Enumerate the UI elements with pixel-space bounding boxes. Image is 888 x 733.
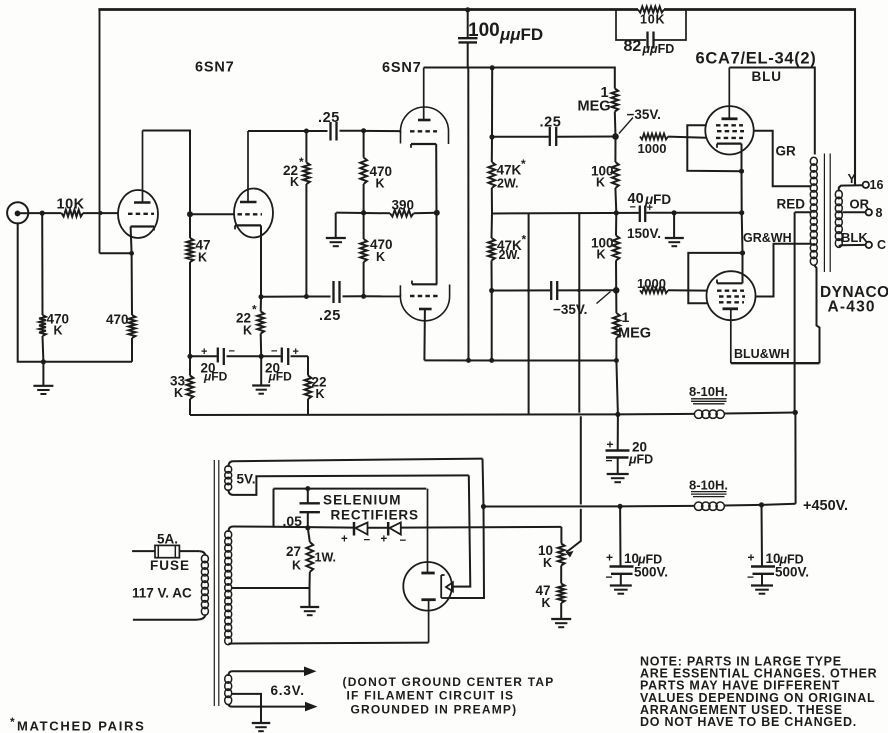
svg-text:1W.: 1W. bbox=[315, 551, 337, 565]
wire jack sleeve down and ground bus bbox=[18, 223, 132, 364]
label 100uuFD bbox=[468, 20, 543, 44]
svg-text:+: + bbox=[201, 346, 207, 358]
ground EL34 cathode bbox=[665, 213, 684, 246]
wire V4 plate to OT BLU&WH bbox=[731, 272, 820, 364]
label 47K* 2W upper bbox=[497, 157, 527, 191]
wire RED center tap bbox=[795, 211, 812, 213]
tube V1b cathode bbox=[235, 225, 261, 296]
svg-text:2W.: 2W. bbox=[499, 248, 521, 262]
wire bias bus bottom bbox=[190, 412, 621, 417]
wire driver cathodes to 390 bbox=[414, 212, 437, 215]
label Y bbox=[848, 172, 857, 186]
svg-text:+: + bbox=[606, 551, 613, 565]
resistor 10K input bbox=[62, 210, 84, 217]
resistor 47K bias bbox=[558, 566, 565, 619]
wire 10K to V1a grid bbox=[83, 212, 118, 214]
label 470K V2a grid bbox=[370, 164, 393, 191]
wire selenium mid bbox=[368, 527, 389, 529]
capacitor 10uFD 500V second bbox=[751, 505, 775, 585]
resistor 390 common cathode bbox=[390, 210, 414, 217]
label C bbox=[877, 238, 886, 252]
svg-text:K: K bbox=[543, 556, 552, 570]
svg-text:BLK: BLK bbox=[841, 230, 868, 245]
tube V3 EL34 upper envelope bbox=[705, 106, 753, 154]
svg-text:FUSE: FUSE bbox=[150, 558, 190, 573]
transformer T1 5V winding bbox=[225, 461, 233, 495]
resistor 10K bias adjust bbox=[558, 527, 565, 566]
label FUSE bbox=[150, 558, 190, 573]
tube V2b plate bbox=[419, 309, 432, 360]
svg-text:*: * bbox=[522, 233, 527, 247]
svg-text:+: + bbox=[748, 551, 755, 565]
capacitor .25 upper EL34 coupling bbox=[492, 127, 619, 146]
label +/- 20uFD left bbox=[201, 346, 235, 384]
wire bias mid line bbox=[492, 212, 639, 215]
capacitor 100uuFD compensation bbox=[458, 7, 478, 360]
svg-text:μFD: μFD bbox=[268, 370, 293, 384]
tube V4 EL34 lower envelope bbox=[707, 271, 756, 320]
wire selenium row right to 10K bbox=[401, 526, 562, 529]
wire 390 to ground corner bbox=[336, 210, 390, 215]
svg-text:1: 1 bbox=[622, 309, 630, 325]
input jack J1 bbox=[7, 202, 28, 223]
label 10K feedback bbox=[640, 13, 665, 27]
wire V3 suppressor-cathode loop bbox=[687, 125, 744, 212]
tube V1b plate bbox=[240, 131, 257, 202]
svg-text:(DONOT GROUND CENTER TAP: (DONOT GROUND CENTER TAP bbox=[343, 675, 555, 689]
note text MATCHED PAIRS bbox=[10, 715, 146, 733]
label 6CA7/EL-34(2) bbox=[696, 50, 817, 68]
wire B+ drop from center tap bbox=[793, 212, 798, 504]
svg-text:SELENIUM: SELENIUM bbox=[323, 493, 402, 508]
label 22K* matched bbox=[283, 155, 304, 189]
resistor 470K V2a grid bbox=[360, 131, 367, 216]
label BLU&WH bbox=[734, 347, 790, 361]
label 10uFD 500V second bbox=[747, 551, 809, 585]
resistor 22K* V1b cathode bbox=[257, 297, 264, 359]
resistor 1000 lower grid stopper bbox=[640, 287, 707, 293]
label -/+ 20uFD right bbox=[265, 346, 299, 384]
capacitor 20uFD left electrolytic bbox=[190, 348, 261, 366]
tube V5 filament bbox=[441, 575, 470, 598]
capacitor 20uFD PS filter bbox=[606, 361, 630, 474]
ground 20uFD PS bbox=[607, 474, 629, 482]
capacitor 10uFD 500V first bbox=[610, 506, 634, 584]
ground 20uFD node bbox=[252, 356, 270, 393]
svg-text:6SN7: 6SN7 bbox=[382, 60, 421, 76]
label OR bbox=[850, 197, 870, 212]
svg-text:−: − bbox=[630, 202, 636, 214]
svg-text:RED: RED bbox=[777, 197, 806, 212]
tube V2a grid (dashed) bbox=[410, 130, 437, 132]
wire to V2a grid bbox=[364, 130, 401, 132]
fuse 5A bbox=[132, 545, 199, 557]
svg-text:K: K bbox=[597, 248, 606, 262]
label 47K bbox=[196, 238, 211, 265]
wire jack to 10K bbox=[28, 211, 61, 216]
label 6.3V bbox=[271, 683, 305, 698]
wire secondary common bbox=[839, 245, 866, 246]
label .25 lower-left bbox=[319, 308, 341, 324]
wire 5V bottom to rectifier filament bbox=[233, 475, 470, 586]
resistor 27K 1W bbox=[306, 528, 313, 588]
wire V4 suppressor-cathode loop bbox=[688, 213, 745, 304]
wire V1b cathode node bbox=[259, 294, 307, 299]
svg-text:100: 100 bbox=[468, 20, 500, 41]
label 1000 upper bbox=[638, 141, 667, 156]
wire V2a plate rail bbox=[424, 65, 613, 70]
diode selenium 1 bbox=[341, 522, 371, 547]
label DYNACO A-430 bbox=[820, 284, 888, 316]
svg-text:+: + bbox=[341, 534, 348, 546]
resistor 47K* 2W upper plate load bbox=[488, 68, 495, 214]
resistor 22K* V1b plate load bbox=[303, 131, 310, 299]
wire HV bottom to rectifier cathode bbox=[233, 642, 429, 645]
svg-text:K: K bbox=[376, 177, 385, 191]
tube V5 plate lower bbox=[421, 600, 435, 643]
transformer T2 secondary winding bbox=[835, 190, 842, 247]
wire 6.3V top filament arrow bbox=[232, 667, 317, 677]
svg-text:27: 27 bbox=[286, 544, 301, 559]
capacitor .25 lower EL34 coupling bbox=[492, 281, 617, 300]
wire 6.3V bottom filament arrow bbox=[232, 702, 318, 712]
resistor 1MEG lower bbox=[613, 290, 620, 360]
svg-text:6SN7: 6SN7 bbox=[195, 60, 234, 76]
svg-text:GR: GR bbox=[776, 144, 797, 159]
capacitor .25 upper-left coupling bbox=[306, 122, 366, 141]
junction V2 cathodes node bbox=[434, 210, 440, 216]
wire V4 screen tap GR&WH bbox=[756, 244, 812, 297]
resistor 47K V1b grid return bbox=[187, 214, 194, 359]
label 1 MEG lower bbox=[618, 309, 651, 342]
choke 8-10H second bbox=[620, 478, 796, 511]
transformer T2 primary winding bbox=[810, 157, 817, 271]
svg-text:GROUNDED IN PREAMP): GROUNDED IN PREAMP) bbox=[351, 703, 518, 717]
tube V1a grid (dashed) bbox=[128, 213, 154, 215]
svg-text:K: K bbox=[292, 559, 301, 573]
label 10uFD 500V first bbox=[606, 551, 669, 585]
label 6SN7 second tube bbox=[382, 60, 421, 76]
tube V1a 6SN7 first section envelope bbox=[118, 190, 158, 238]
junction blob at grid-wire crossing bbox=[99, 211, 103, 215]
transformer T1 core bbox=[214, 460, 219, 706]
svg-text:IF FILAMENT CIRCUIT IS: IF FILAMENT CIRCUIT IS bbox=[347, 689, 515, 703]
label 390 bbox=[392, 198, 415, 213]
wire secondary top to Y terminal bbox=[839, 185, 863, 191]
label 6SN7 first tube bbox=[195, 60, 234, 76]
svg-text:82: 82 bbox=[624, 38, 642, 55]
terminal OR 8 ohm bbox=[866, 209, 872, 215]
tube V1b 6SN7 second section envelope bbox=[234, 189, 273, 238]
transformer T1 HV winding bbox=[225, 527, 233, 645]
label -35V lower with pointer bbox=[553, 292, 611, 318]
label 470 V1a cathode bbox=[106, 312, 129, 327]
svg-text:μFD: μFD bbox=[203, 370, 228, 384]
capacitor 40uFD 150V bbox=[640, 206, 677, 223]
label 470K input bbox=[47, 312, 70, 338]
wire rectifier plate line bbox=[274, 486, 427, 491]
svg-text:K: K bbox=[376, 250, 385, 264]
tube V3 suppressor (dashed) bbox=[716, 124, 743, 126]
label GR bbox=[776, 144, 797, 159]
svg-text:150V.: 150V. bbox=[627, 226, 661, 241]
wire V1a plate to V1b grid node bbox=[143, 131, 194, 218]
svg-text:−: − bbox=[271, 346, 277, 358]
tube V1b grid (dashed) bbox=[190, 213, 262, 215]
tube V2a 6SN7 driver upper envelope bbox=[401, 107, 449, 144]
svg-text:390: 390 bbox=[392, 198, 415, 213]
wire 6.3V center tap to ground bbox=[231, 694, 261, 722]
terminal Y 16 ohm bbox=[863, 182, 869, 188]
ground HV center tap bbox=[300, 588, 319, 615]
svg-text:.25: .25 bbox=[318, 110, 340, 126]
label GR&WH bbox=[743, 231, 792, 245]
svg-text:Y: Y bbox=[848, 172, 857, 186]
label 33K bbox=[170, 374, 186, 401]
tube V4 control grid (dashed) bbox=[717, 290, 744, 292]
tube V2b cathode bbox=[412, 213, 437, 284]
wire selenium row left bbox=[274, 526, 354, 529]
resistor 100K lower bbox=[613, 213, 620, 294]
svg-text:−: − bbox=[229, 346, 235, 358]
svg-text:10K: 10K bbox=[57, 197, 85, 213]
ground 10uFD second bbox=[751, 586, 773, 594]
capacitor .05 bbox=[300, 489, 320, 531]
svg-text:+: + bbox=[607, 438, 614, 452]
wire B+ line bbox=[481, 504, 623, 509]
resistor 1MEG upper bbox=[611, 68, 618, 137]
capacitor 82uuFD feedback bbox=[616, 10, 686, 49]
tube V2b grid (dashed) bbox=[410, 295, 438, 297]
label 22K bbox=[312, 375, 327, 402]
svg-text:+: + bbox=[647, 202, 653, 214]
svg-text:−: − bbox=[747, 570, 754, 584]
svg-text:5A.: 5A. bbox=[157, 532, 178, 547]
label 16 bbox=[870, 178, 884, 192]
wire HV top lead bbox=[233, 489, 274, 527]
svg-text:GR&WH: GR&WH bbox=[743, 231, 792, 245]
svg-text:A-430: A-430 bbox=[828, 299, 876, 316]
choke 8-10H first bbox=[618, 384, 795, 418]
label BLK bbox=[841, 230, 868, 245]
transformer T1 primary winding bbox=[133, 551, 209, 620]
label +450V bbox=[803, 498, 848, 514]
tube V2a plate bbox=[418, 68, 431, 121]
tube V5 rectifier envelope bbox=[403, 562, 452, 611]
svg-text:6.3V.: 6.3V. bbox=[271, 683, 305, 698]
wire HV center tap bbox=[232, 587, 310, 589]
label 1000 lower bbox=[637, 276, 666, 291]
wire link B ground reference bbox=[566, 214, 581, 558]
tube V1a cathode bbox=[131, 227, 154, 254]
svg-text:K: K bbox=[596, 176, 605, 190]
svg-text:.25: .25 bbox=[540, 115, 562, 131]
svg-text:μFD: μFD bbox=[628, 453, 653, 467]
label 100K upper bbox=[591, 164, 614, 190]
svg-text:2W.: 2W. bbox=[497, 177, 519, 191]
ground 10uFD first bbox=[610, 586, 632, 594]
svg-text:MEG: MEG bbox=[618, 326, 651, 342]
svg-text:8-10H.: 8-10H. bbox=[689, 478, 728, 493]
svg-text:K: K bbox=[290, 175, 299, 189]
label + 20uFD bbox=[606, 438, 654, 468]
svg-text:K: K bbox=[174, 386, 183, 400]
svg-text:1000: 1000 bbox=[638, 141, 667, 156]
resistor 100K upper bbox=[612, 137, 619, 216]
ground bias divider bbox=[551, 619, 571, 627]
label 5A bbox=[157, 532, 178, 547]
transformer T2 core bbox=[824, 154, 830, 273]
svg-text:MEG: MEG bbox=[578, 99, 611, 115]
tube V4 screen (dashed) bbox=[719, 295, 745, 297]
label BLU bbox=[752, 69, 782, 84]
svg-text:1000: 1000 bbox=[637, 276, 666, 291]
tube V2a cathode bbox=[411, 144, 437, 213]
svg-text:K: K bbox=[316, 387, 325, 401]
svg-text:500V.: 500V. bbox=[634, 565, 668, 580]
svg-text:K: K bbox=[54, 324, 63, 338]
svg-text:OR: OR bbox=[850, 197, 870, 212]
svg-text:−: − bbox=[400, 535, 407, 547]
svg-text:μμFD: μμFD bbox=[642, 42, 675, 56]
label -35V upper with pointer bbox=[619, 107, 661, 134]
svg-text:−: − bbox=[606, 570, 613, 584]
svg-text:RECTIFIERS: RECTIFIERS bbox=[331, 508, 419, 523]
svg-text:μμFD: μμFD bbox=[499, 25, 543, 44]
svg-text:47K: 47K bbox=[497, 163, 522, 178]
svg-text:−35V.: −35V. bbox=[627, 107, 661, 122]
wire secondary 8 ohm tap bbox=[842, 211, 865, 213]
svg-text:.25: .25 bbox=[319, 308, 341, 324]
tube V3 screen (dashed) bbox=[717, 130, 744, 132]
tube V3 cathode bbox=[717, 144, 742, 148]
svg-text:*: * bbox=[299, 155, 304, 169]
label .05 bbox=[283, 513, 303, 529]
svg-text:470: 470 bbox=[106, 312, 129, 327]
resistor 1000 upper grid stopper bbox=[640, 134, 706, 140]
resistor 470K input grid leak bbox=[39, 213, 46, 362]
svg-text:−: − bbox=[606, 454, 613, 468]
label 8 bbox=[876, 206, 883, 220]
note text about DONOT GROUND bbox=[343, 675, 555, 717]
wire V1b plate run bbox=[248, 129, 309, 134]
tube V2b 6SN7 driver lower envelope bbox=[400, 285, 449, 321]
svg-text:K: K bbox=[243, 324, 252, 338]
svg-text:117 V. AC: 117 V. AC bbox=[132, 586, 192, 601]
tube V3 plate bbox=[722, 68, 738, 119]
svg-text:+: + bbox=[293, 346, 299, 358]
svg-text:MATCHED PAIRS: MATCHED PAIRS bbox=[17, 719, 146, 733]
svg-text:*: * bbox=[10, 715, 15, 729]
label 82uuFD bbox=[624, 38, 675, 56]
label RED bbox=[777, 197, 806, 212]
terminal BLK common bbox=[866, 242, 872, 248]
svg-text:DO NOT HAVE TO BE CHANGED.: DO NOT HAVE TO BE CHANGED. bbox=[640, 715, 857, 729]
wire V3 screen tap GR bbox=[754, 131, 812, 187]
svg-text:5V.: 5V. bbox=[237, 472, 256, 487]
transformer T1 6.3V winding bbox=[225, 671, 232, 706]
tube V4 plate bbox=[723, 309, 739, 363]
wire V3 plate to OT bbox=[729, 68, 815, 155]
label 47K bias bbox=[536, 583, 551, 610]
ground driver cathode bbox=[326, 213, 346, 247]
label 5V bbox=[237, 472, 256, 487]
diode selenium 2 bbox=[381, 522, 407, 547]
wire 5V top to rectifier filament bbox=[233, 459, 484, 598]
svg-text:8: 8 bbox=[876, 206, 883, 220]
capacitor 20uFD right electrolytic bbox=[261, 348, 308, 366]
svg-text:*: * bbox=[252, 303, 257, 317]
svg-text:C: C bbox=[877, 238, 886, 252]
resistor 470K V2b grid bbox=[360, 213, 367, 299]
svg-text:−35V.: −35V. bbox=[553, 302, 587, 317]
svg-text:*: * bbox=[521, 157, 526, 171]
label .25 upper-left bbox=[318, 110, 340, 126]
label 117V AC bbox=[132, 586, 192, 601]
wire EL34 cathodes tie bbox=[674, 210, 744, 215]
label 10K bias bbox=[538, 543, 553, 570]
svg-text:6CA7/EL-34(2): 6CA7/EL-34(2) bbox=[696, 50, 817, 68]
label 10K input bbox=[57, 197, 85, 213]
svg-text:16: 16 bbox=[870, 178, 884, 192]
ground 6.3V center tap bbox=[252, 723, 271, 731]
svg-text:−: − bbox=[364, 535, 371, 547]
tube V5 plate upper bbox=[421, 489, 434, 573]
label 1 MEG upper bbox=[578, 85, 611, 115]
svg-text:8-10H.: 8-10H. bbox=[689, 384, 728, 399]
label 100K lower bbox=[591, 236, 614, 262]
label 47K* 2W lower bbox=[497, 233, 527, 263]
svg-text:K: K bbox=[542, 596, 551, 610]
wire feedback top run from V1 cathode line to 16-ohm tap bbox=[98, 9, 856, 254]
label 470K V2b grid bbox=[370, 237, 393, 264]
svg-text:+450V.: +450V. bbox=[803, 498, 848, 514]
svg-text:+: + bbox=[381, 534, 388, 546]
resistor 10K feedback (top) bbox=[638, 6, 664, 12]
label .25 upper EL34 bbox=[540, 115, 562, 131]
label 40uFD 150V bbox=[627, 191, 671, 241]
wire V2b plate rail bbox=[424, 358, 619, 363]
label 22K* second bbox=[236, 303, 257, 338]
label SELENIUM RECTIFIERS bbox=[323, 493, 419, 523]
resistor 47K* 2W lower plate load bbox=[488, 214, 495, 361]
ground input bus bbox=[33, 362, 53, 394]
wire cathode feedback stub bbox=[100, 251, 135, 256]
svg-text:500V.: 500V. bbox=[775, 565, 809, 580]
resistor 470 V1a cathode bbox=[129, 253, 136, 361]
resistor 33K bbox=[187, 356, 194, 415]
svg-text:K: K bbox=[198, 251, 207, 265]
note text bottom right bbox=[640, 655, 877, 730]
svg-text:10K: 10K bbox=[640, 13, 665, 27]
svg-text:BLU: BLU bbox=[752, 69, 782, 84]
label 27K 1W bbox=[286, 544, 336, 573]
tube V1a plate bbox=[134, 131, 151, 203]
svg-text:BLU&WH: BLU&WH bbox=[734, 347, 790, 361]
wire link A bias bbox=[527, 214, 530, 415]
resistor 22K bbox=[305, 356, 312, 415]
tube V3 control grid (dashed) bbox=[716, 137, 743, 139]
tube V4 cathode bbox=[717, 280, 743, 284]
capacitor .25 lower-left coupling bbox=[306, 281, 400, 303]
tube V4 suppressor (dashed) bbox=[719, 301, 744, 303]
